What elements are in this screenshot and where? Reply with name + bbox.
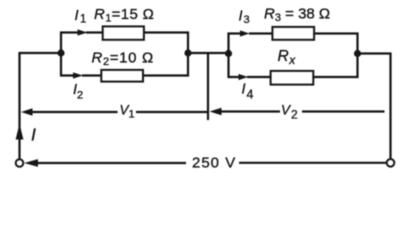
resistor R3 bbox=[272, 27, 314, 40]
wire: middle stub down to V1/V2 divider bbox=[207, 53, 209, 120]
wire: V2 dimension line right part bbox=[302, 110, 385, 112]
svg-text:I2: I2 bbox=[73, 82, 83, 102]
wire: V1 dimension line left part bbox=[31, 111, 118, 113]
wire: right pair bottom branch left segment bbox=[229, 54, 240, 78]
svg-text:V2: V2 bbox=[281, 103, 299, 122]
arrow: current I4 bbox=[239, 74, 249, 80]
node B junction dot bbox=[184, 49, 191, 56]
arrow: current I2 bbox=[73, 72, 83, 78]
wire: left pair bottom branch left segment bbox=[61, 53, 74, 76]
wire: R3 to right, down to node D bbox=[315, 34, 358, 54]
wire: node D to right rail down to terminal bbox=[358, 54, 391, 159]
resistor R2 bbox=[101, 70, 143, 82]
arrow: V1 left arrowhead bbox=[21, 108, 33, 115]
wire: R2 to right, up to node B bbox=[144, 53, 189, 76]
wire: R1 to right, down to node B bbox=[145, 33, 189, 54]
wire: V2 dimension line left part bbox=[221, 110, 280, 112]
arrow: 250 V arrowhead at left terminal bbox=[24, 159, 38, 167]
terminal: left open circle bbox=[16, 159, 24, 167]
resistor R1 bbox=[103, 26, 144, 39]
wire: bottom conductor left segment to arrow bbox=[36, 162, 186, 164]
svg-text:250 V: 250 V bbox=[192, 155, 236, 172]
node D junction dot bbox=[354, 50, 361, 57]
wire: right pair top branch left segment bbox=[229, 34, 241, 54]
arrow: current I3 bbox=[240, 30, 250, 36]
wire: left pair top branch left segment bbox=[61, 33, 78, 54]
wire: V1 dimension line right part to stub bbox=[136, 111, 208, 113]
wire: bottom branch into Rx bbox=[247, 76, 271, 78]
wire: Rx to right, up to node D bbox=[314, 54, 358, 78]
svg-text:R3 = 38 Ω: R3 = 38 Ω bbox=[264, 6, 330, 25]
svg-text:I4: I4 bbox=[242, 82, 255, 102]
wire: top branch into R3 bbox=[249, 32, 272, 34]
resistor Rx bbox=[271, 71, 314, 85]
node A junction dot bbox=[57, 49, 64, 56]
svg-text:R2=10 Ω: R2=10 Ω bbox=[92, 50, 154, 69]
arrow: total current I (upward on left rail) bbox=[16, 124, 24, 140]
svg-text:Rx: Rx bbox=[278, 48, 297, 67]
svg-text:V1: V1 bbox=[120, 103, 135, 121]
svg-text:I: I bbox=[31, 125, 36, 145]
svg-text:R1=15 Ω: R1=15 Ω bbox=[94, 6, 154, 25]
wire: top branch into R1 bbox=[86, 31, 103, 33]
wire: middle link node B to node C bbox=[188, 52, 229, 54]
arrow: V2 left arrowhead bbox=[210, 108, 222, 115]
svg-text:I1: I1 bbox=[75, 8, 88, 26]
wire: bottom conductor right segment from terminal bbox=[239, 162, 386, 164]
terminal: right open circle bbox=[387, 159, 395, 167]
node C junction dot bbox=[225, 50, 232, 57]
wire: left rail with top corner to node A bbox=[20, 53, 62, 159]
wire: bottom branch into R2 bbox=[82, 74, 101, 76]
svg-text:I3: I3 bbox=[239, 9, 251, 27]
arrow: current I1 bbox=[78, 29, 88, 35]
